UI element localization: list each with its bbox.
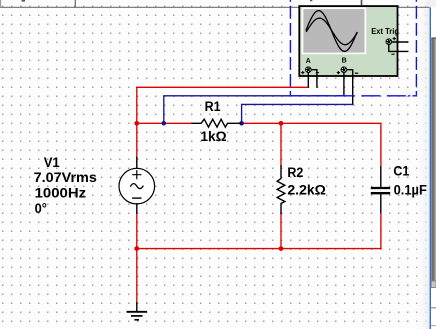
window gray frame corner [431, 37, 436, 39]
waveform channel B [306, 18, 357, 45]
svg-text:7.07Vrms: 7.07Vrms [34, 170, 97, 185]
window dark frame band [431, 39, 435, 282]
toolbar tick x75 [74, 0, 76, 7]
scope stub wire B plus [343, 72, 345, 96]
junction dot node R2 bottom [279, 246, 284, 251]
toolbar mark x23 [22, 0, 25, 2]
right edge fade [414, 0, 430, 329]
wire: red rail y123 left of R1 [137, 122, 192, 124]
scope stub wire Ext Trig plus [392, 41, 409, 43]
AC source V1 [119, 157, 155, 212]
wire: red top node vertical V1 to top rail [136, 87, 138, 157]
wire: red C1 branch bottom [380, 213, 382, 248]
svg-text:2.2kΩ: 2.2kΩ [287, 183, 326, 198]
toolbar tick x361 [361, 0, 363, 5]
svg-text:0.1µF: 0.1µF [394, 182, 427, 197]
svg-text:0°: 0° [35, 201, 47, 216]
wire: red rail y123 right of R1 to C1 corner [241, 123, 381, 166]
wire: red top horizontal to scope A [137, 86, 308, 88]
ground [127, 302, 148, 320]
svg-text:V1: V1 [44, 155, 61, 170]
wire: navy scope B- run [242, 104, 353, 123]
selection dashed box around oscilloscope [290, 0, 416, 96]
resistor R2 [277, 166, 285, 213]
svg-text:1000Hz: 1000Hz [35, 186, 87, 201]
junction dot node R2 top [279, 121, 284, 126]
waveform channel A [306, 11, 357, 52]
svg-text:A: A [306, 58, 311, 65]
terminal Ext Trig [386, 38, 393, 45]
junction dot node V1 top [134, 121, 139, 126]
svg-text:Ext Trig: Ext Trig [371, 26, 399, 36]
polarity marks B [337, 71, 340, 74]
toolbar tick left edge [0, 0, 2, 7]
scope stub wire Ext Trig minus [389, 45, 409, 52]
svg-text:C1: C1 [393, 163, 410, 178]
resistor R1 [192, 119, 241, 127]
polarity marks A [301, 71, 304, 74]
scope stub wire A plus [307, 72, 309, 87]
oscilloscope screen frame [302, 7, 367, 54]
scrollbar area bottom right [431, 282, 436, 329]
right side window sliver [429, 0, 436, 329]
scope stub wire B minus hook [346, 70, 353, 105]
junction dot navy B- tap [239, 121, 244, 126]
junction dot node ground [134, 246, 139, 251]
wire: red R2 branch top [280, 123, 282, 166]
svg-text:R2: R2 [287, 165, 303, 180]
junction dot navy B+ tap [162, 121, 167, 126]
svg-text:R1: R1 [205, 99, 222, 114]
toolbar bottom gray line [0, 0, 430, 7]
oscilloscope screen [303, 9, 364, 53]
wire: red R2 branch bottom [280, 213, 282, 248]
window blue left border [429, 7, 431, 329]
wire navy B plus horizontal [164, 95, 344, 97]
oscilloscope XSC1 body [299, 6, 408, 104]
scope stub wire A minus hook [311, 70, 317, 88]
polarity marks Ext Trig [393, 37, 396, 40]
wire: red bottom rail [137, 248, 381, 250]
terminal A [305, 66, 312, 73]
toolbar mark x311 [310, 0, 312, 1]
capacitor C1 [371, 166, 390, 213]
wire: red ground drop [136, 249, 138, 303]
wire: red V1 bottom vertical [136, 213, 138, 249]
wire: navy scope B+ run [163, 96, 165, 124]
svg-text:B: B [342, 57, 347, 64]
terminal B [341, 66, 348, 73]
svg-text:1kΩ: 1kΩ [200, 129, 227, 144]
